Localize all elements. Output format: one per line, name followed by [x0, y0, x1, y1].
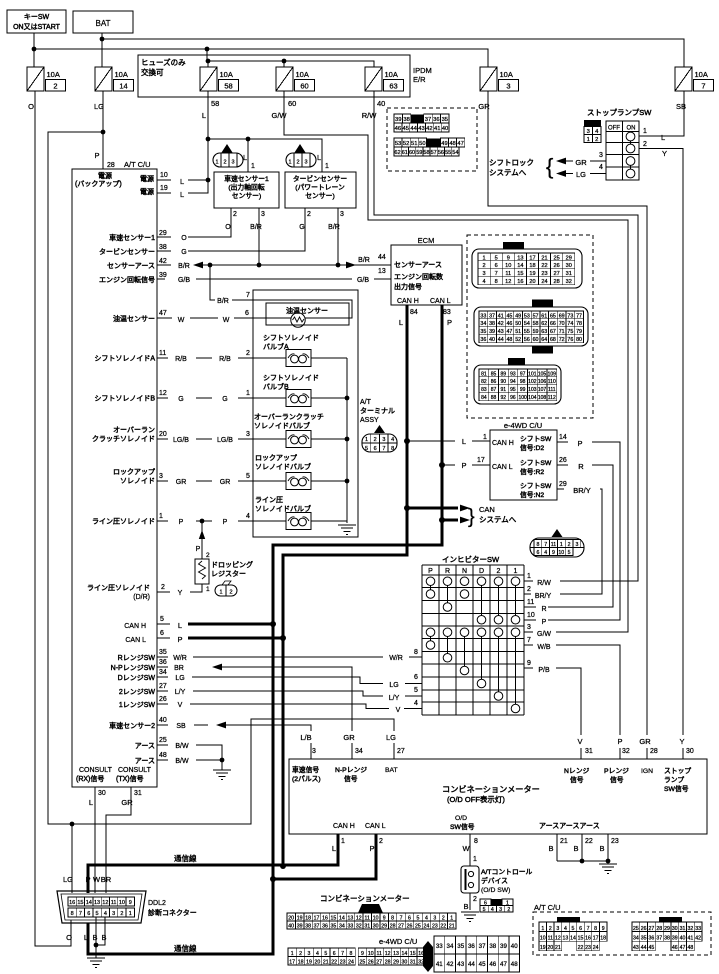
svg-text:2: 2 [229, 590, 232, 596]
svg-text:4: 4 [599, 164, 603, 171]
svg-text:53: 53 [524, 313, 530, 319]
svg-text:レジスター: レジスター [211, 569, 246, 578]
svg-text:10A: 10A [47, 70, 60, 79]
ground ATCU earth [213, 770, 231, 779]
svg-text:44: 44 [641, 945, 647, 951]
svg-text:出力信号: 出力信号 [394, 282, 422, 291]
svg-text:2: 2 [299, 951, 302, 957]
fuse F14 10A [95, 67, 134, 91]
svg-text:シフトソレノイド: シフトソレノイド [263, 334, 319, 342]
ECM box [391, 236, 462, 305]
svg-text:93: 93 [510, 371, 516, 377]
svg-text:G: G [299, 224, 304, 231]
svg-text:16: 16 [322, 916, 328, 922]
meter pin34 N-P range signal GR [335, 733, 367, 783]
svg-text:SB: SB [676, 102, 686, 111]
svg-text:48: 48 [511, 961, 518, 968]
svg-text:44: 44 [378, 254, 386, 261]
ATCU pin2 wire Y from dropping resistor [87, 584, 202, 601]
wire O fuse F2 to DDL2 pin8 [35, 91, 71, 946]
ATCU pin31 CONSULT TX wire GR to DDL2 pin12 [106, 787, 142, 893]
svg-text:3: 3 [159, 473, 163, 480]
svg-text:13: 13 [378, 268, 386, 275]
svg-text:4: 4 [104, 911, 107, 917]
svg-text:18: 18 [600, 936, 606, 942]
svg-text:W: W [93, 875, 101, 884]
wire GR fuse F3 to meter pin28 IGN [488, 91, 647, 759]
communication line label lower [174, 943, 197, 953]
svg-text:26: 26 [554, 263, 560, 269]
svg-text:40: 40 [442, 126, 448, 132]
svg-text:31: 31 [680, 926, 686, 932]
svg-text:D: D [479, 568, 484, 575]
svg-text:信号: 信号 [570, 775, 584, 784]
svg-text:30: 30 [566, 263, 572, 269]
svg-text:BR/Y: BR/Y [535, 593, 552, 600]
svg-text:(バックアップ): (バックアップ) [75, 180, 122, 188]
svg-text:B/R: B/R [328, 224, 340, 231]
svg-text:9: 9 [383, 916, 386, 922]
svg-text:L: L [84, 933, 88, 942]
fuse F63 10A [365, 67, 404, 91]
svg-text:L: L [661, 133, 665, 142]
svg-text:10A: 10A [500, 70, 513, 79]
meter pin27 BAT wire LG [385, 733, 405, 774]
svg-text:14: 14 [570, 936, 576, 942]
svg-text:油温センサー: 油温センサー [286, 306, 328, 315]
svg-text:R: R [445, 568, 450, 575]
svg-text:7: 7 [544, 542, 547, 548]
svg-text:38: 38 [305, 924, 311, 930]
svg-text:11: 11 [365, 916, 370, 922]
svg-text:34: 34 [339, 924, 345, 930]
inhibitor pin3 wire G/W [524, 624, 551, 638]
svg-text:24: 24 [541, 279, 547, 285]
svg-text:25: 25 [415, 924, 421, 930]
svg-text:58: 58 [224, 82, 232, 91]
svg-text:10A: 10A [296, 70, 309, 79]
svg-text:39: 39 [297, 924, 303, 930]
svg-text:BAT: BAT [385, 767, 398, 774]
svg-text:L/Y: L/Y [389, 695, 400, 702]
svg-text:e-4WD C/U: e-4WD C/U [379, 937, 417, 946]
svg-text:36: 36 [480, 337, 486, 343]
svg-text:9: 9 [527, 660, 531, 667]
svg-text:57: 57 [431, 150, 437, 156]
svg-text:1: 1 [325, 163, 329, 170]
svg-text:49: 49 [515, 313, 521, 319]
svg-text:23: 23 [611, 838, 619, 845]
speed sensor1 pin3 wire B/R [250, 208, 265, 265]
svg-text:A/T C/U: A/T C/U [124, 160, 151, 169]
svg-text:37: 37 [314, 924, 320, 930]
turbine sensor pin2 wire G [157, 208, 311, 251]
wire P to dropping resistor [196, 521, 210, 559]
svg-text:L: L [399, 318, 403, 327]
svg-text:26: 26 [641, 926, 647, 932]
svg-text:G/B: G/B [357, 277, 369, 284]
wire L fuse F58 to ATCU pins 10 19 [157, 91, 210, 193]
svg-text:2: 2 [161, 584, 165, 591]
svg-text:V: V [396, 707, 401, 714]
svg-text:R/W: R/W [362, 111, 378, 120]
ECM pin83 CAN L wire P [443, 309, 452, 327]
svg-text:(O/D OFF表示灯): (O/D OFF表示灯) [447, 794, 505, 804]
svg-text:3: 3 [231, 160, 234, 166]
connector icon speed sensor 1-2-3 [213, 144, 243, 167]
svg-text:O: O [181, 235, 187, 242]
svg-text:3: 3 [304, 160, 307, 166]
svg-text:システムへ: システムへ [489, 168, 527, 177]
svg-text:83: 83 [443, 309, 451, 316]
combination meter connector [287, 904, 456, 930]
inhibitor pin11 wire R [524, 599, 547, 613]
svg-text:ライン圧ソレノイド: ライン圧ソレノイド [87, 584, 150, 592]
svg-text:28: 28 [385, 960, 391, 966]
svg-text:56: 56 [524, 337, 530, 343]
svg-text:W: W [223, 317, 230, 324]
svg-text:3: 3 [556, 926, 559, 932]
svg-text:Y: Y [679, 737, 684, 746]
svg-text:2: 2 [296, 160, 299, 166]
svg-text:5: 5 [495, 255, 498, 261]
svg-text:8: 8 [495, 279, 498, 285]
svg-text:G: G [181, 249, 186, 256]
svg-text:111: 111 [548, 387, 556, 393]
lockup solenoid valve label [255, 454, 311, 471]
svg-text:5: 5 [572, 926, 575, 932]
svg-text:69: 69 [559, 313, 565, 319]
svg-text:2: 2 [482, 263, 485, 269]
svg-text:7: 7 [701, 82, 705, 91]
svg-text:47: 47 [506, 329, 512, 335]
svg-text:16: 16 [585, 936, 591, 942]
svg-text:33: 33 [347, 924, 353, 930]
ATCU pin29 O [109, 230, 187, 242]
svg-text:5: 5 [324, 951, 327, 957]
svg-text:e-4WD C/U: e-4WD C/U [504, 421, 542, 430]
AT terminal assy connector [362, 425, 397, 452]
svg-text:29: 29 [393, 960, 399, 966]
svg-text:36: 36 [649, 936, 655, 942]
svg-text:シフトソレノイドA: シフトソレノイドA [94, 355, 155, 363]
svg-text:3: 3 [599, 152, 603, 159]
svg-text:P: P [196, 546, 201, 553]
svg-text:3: 3 [261, 211, 265, 218]
svg-text:87: 87 [491, 387, 497, 393]
svg-text:A/T: A/T [360, 399, 372, 406]
wire L branch to sensors [208, 137, 322, 172]
svg-text:28: 28 [656, 926, 662, 932]
svg-text:8: 8 [474, 838, 478, 845]
svg-text:47: 47 [500, 961, 507, 968]
ATCU pin47 oil temp sensor wire W [113, 300, 352, 324]
svg-text:105: 105 [538, 371, 547, 377]
fuse F60 10A [276, 67, 315, 91]
ATCU internal labels power [75, 171, 154, 196]
svg-text:60: 60 [533, 337, 539, 343]
svg-text:2: 2 [527, 586, 531, 593]
svg-text:シフトソレノイドB: シフトソレノイドB [94, 395, 155, 403]
svg-text:33: 33 [695, 926, 701, 932]
svg-text:3: 3 [382, 437, 385, 443]
ATCU pin35 R range switch wire W/R [118, 649, 422, 662]
svg-text:(2パルス): (2パルス) [292, 775, 321, 783]
meter pin3 vehicle speed signal L/B [292, 733, 321, 783]
svg-text:信号: 信号 [344, 774, 358, 783]
svg-text:CAN: CAN [479, 505, 495, 514]
svg-text:4: 4 [316, 951, 319, 957]
svg-text:35: 35 [457, 943, 464, 950]
svg-text:43: 43 [633, 945, 639, 951]
svg-text:アース: アース [135, 742, 155, 750]
svg-text:27: 27 [397, 748, 405, 755]
svg-text:G/W: G/W [272, 111, 288, 120]
svg-text:ソレノイド: ソレノイド [120, 478, 155, 485]
svg-text:P/B: P/B [538, 667, 550, 674]
svg-text:BAT: BAT [96, 19, 111, 28]
svg-text:110: 110 [548, 379, 556, 385]
svg-text:V: V [577, 737, 582, 746]
svg-text:48: 48 [159, 752, 167, 759]
svg-text:R/B: R/B [175, 356, 187, 363]
fuse F7 10A [675, 67, 714, 91]
svg-text:W/R: W/R [389, 655, 403, 662]
svg-text:N: N [462, 568, 467, 575]
svg-text:112: 112 [548, 395, 556, 401]
svg-text:8: 8 [391, 446, 394, 452]
svg-text:ソレノイドバルブ: ソレノイドバルブ [254, 421, 310, 430]
svg-text:3: 3 [308, 951, 311, 957]
svg-text:95: 95 [510, 387, 516, 393]
svg-text:2: 2 [374, 437, 377, 443]
svg-text:エンジン回転信号: エンジン回転信号 [99, 275, 155, 284]
svg-text:11: 11 [505, 271, 511, 277]
svg-text:油温センサー: 油温センサー [113, 314, 155, 323]
svg-text:システムへ: システムへ [479, 515, 517, 524]
svg-text:アース: アース [135, 757, 155, 765]
svg-text:2: 2 [497, 568, 501, 575]
svg-text:29: 29 [664, 926, 670, 932]
svg-text:26: 26 [407, 924, 413, 930]
ATCU pin42 B/R [107, 258, 190, 270]
svg-text:Y: Y [178, 590, 183, 597]
svg-text:7: 7 [495, 271, 498, 277]
DDL2 diagnostic connector body [57, 891, 197, 923]
svg-text:N-PレンジSW: N-PレンジSW [111, 665, 156, 672]
wire IPDM fuse rail [206, 49, 374, 67]
wire B/R to ECM pin44 with arrow [340, 254, 391, 268]
svg-text:61: 61 [402, 150, 408, 156]
svg-text:30: 30 [402, 960, 408, 966]
ATCU power wire P pin28 [94, 151, 150, 169]
wire R/W fuse F63 to inhibitor row1 [374, 91, 638, 581]
svg-text:L: L [89, 798, 93, 807]
svg-text:6: 6 [536, 550, 539, 556]
svg-text:60: 60 [288, 99, 296, 108]
svg-text:(TX)信号: (TX)信号 [116, 774, 144, 783]
svg-text:18: 18 [298, 960, 304, 966]
wire G/B row39 to ECM pin13 [157, 268, 391, 284]
svg-text:14: 14 [402, 951, 408, 957]
svg-text:7: 7 [246, 292, 250, 299]
svg-text:58: 58 [211, 99, 219, 108]
svg-text:ソレノイドバルブ: ソレノイドバルブ [255, 462, 311, 471]
svg-text:B: B [599, 844, 604, 853]
svg-text:45: 45 [403, 126, 409, 132]
svg-text:20: 20 [547, 945, 553, 951]
svg-text:72: 72 [559, 337, 565, 343]
svg-text:2: 2 [507, 907, 510, 913]
svg-text:GR: GR [220, 479, 231, 486]
svg-text:(パワートレーン: (パワートレーン [295, 184, 345, 192]
combination meter box [289, 759, 707, 834]
svg-text:52: 52 [515, 337, 521, 343]
svg-text:SW信号: SW信号 [664, 784, 689, 793]
svg-text:58: 58 [533, 321, 539, 327]
svg-text:44: 44 [410, 126, 417, 132]
svg-text:OFF: OFF [608, 126, 620, 132]
oil temperature sensor thermistor [291, 313, 305, 327]
svg-text:19: 19 [529, 271, 535, 277]
inhibitor switch contacts circles [426, 577, 520, 713]
svg-text:45: 45 [649, 945, 655, 951]
svg-text:63: 63 [541, 329, 547, 335]
svg-text:4: 4 [246, 513, 250, 520]
ATCU pin48 ground wire B/W [135, 752, 225, 770]
AT control device OD switch [461, 856, 533, 911]
svg-text:O/D: O/D [455, 815, 467, 822]
svg-text:4: 4 [482, 279, 485, 285]
svg-text:4: 4 [491, 907, 494, 913]
svg-text:L: L [202, 111, 206, 120]
svg-text:12: 12 [102, 900, 108, 906]
svg-text:99: 99 [520, 387, 526, 393]
svg-text:74: 74 [567, 321, 573, 327]
svg-text:22: 22 [578, 945, 584, 951]
overrun clutch solenoid coil ATCU pin20 LG/B [92, 426, 347, 447]
svg-text:28: 28 [107, 162, 115, 169]
bus battery feed to fuse F7 [100, 37, 684, 67]
svg-text:20: 20 [288, 916, 294, 922]
inhibitor connector icon oval [530, 529, 584, 557]
svg-text:B/W: B/W [175, 743, 189, 750]
svg-text:シフトソレノイド: シフトソレノイド [263, 374, 319, 382]
IPDM connector grid 35-46 [394, 114, 449, 132]
svg-text:35: 35 [641, 936, 647, 942]
svg-text:ライン圧ソレノイド: ライン圧ソレノイド [92, 518, 155, 526]
svg-text:31: 31 [585, 748, 593, 755]
svg-text:11: 11 [548, 936, 553, 942]
svg-text:38: 38 [489, 943, 496, 950]
svg-text:55: 55 [524, 329, 530, 335]
svg-text:1: 1 [527, 573, 531, 580]
svg-text:70: 70 [559, 321, 565, 327]
svg-text:W/B: W/B [537, 644, 551, 651]
svg-text:GR: GR [121, 798, 133, 807]
svg-text:オーバーランクラッチ: オーバーランクラッチ [254, 413, 324, 421]
svg-text:46: 46 [395, 126, 401, 132]
ATCU pin40 vehicle speed sensor 2 wire SB to meter pin3 [109, 717, 311, 759]
svg-text:10: 10 [368, 951, 374, 957]
svg-text:G/B: G/B [178, 277, 190, 284]
svg-text:47: 47 [457, 141, 463, 147]
svg-text:24: 24 [593, 945, 599, 951]
svg-text:信号:D2: 信号:D2 [520, 443, 544, 452]
svg-text:42: 42 [447, 961, 454, 968]
label LG P W BR above DDL2 [63, 875, 112, 884]
svg-text:84: 84 [410, 309, 418, 316]
svg-text:5: 5 [483, 907, 486, 913]
svg-text:R/W: R/W [537, 580, 551, 587]
svg-text:信号:R2: 信号:R2 [520, 467, 544, 476]
svg-text:31: 31 [134, 790, 142, 797]
meter pin32 P range signal P [604, 737, 630, 784]
svg-text:45: 45 [506, 313, 512, 319]
ATCU pin30 CONSULT RX wire L to DDL2 pin13 [89, 787, 106, 893]
svg-text:21: 21 [560, 838, 568, 845]
svg-text:20: 20 [315, 960, 321, 966]
svg-text:バルブB: バルブB [263, 382, 289, 391]
svg-text:104: 104 [528, 395, 537, 401]
svg-text:R/B: R/B [219, 356, 231, 363]
svg-text:6: 6 [333, 951, 336, 957]
svg-text:GR: GR [639, 737, 651, 746]
ATCU pin38 G [99, 244, 187, 256]
svg-text:3: 3 [246, 431, 250, 438]
svg-text:エンジン回転数: エンジン回転数 [394, 272, 443, 281]
e-4WD connector diamond key [423, 941, 433, 972]
svg-text:98: 98 [520, 379, 526, 385]
svg-text:3: 3 [587, 129, 590, 135]
ECM connector grid 1-32 [472, 242, 582, 288]
svg-text:47: 47 [159, 310, 167, 317]
svg-text:10A: 10A [115, 70, 128, 79]
svg-text:34: 34 [480, 321, 486, 327]
svg-text:107: 107 [538, 387, 547, 393]
svg-text:13: 13 [347, 916, 353, 922]
svg-text:41: 41 [687, 936, 693, 942]
svg-text:37: 37 [479, 943, 486, 950]
svg-text:電源: 電源 [98, 171, 112, 180]
svg-text:13: 13 [94, 900, 100, 906]
svg-text:(RX)信号: (RX)信号 [76, 774, 104, 783]
inhibitor pin10 wire P [524, 612, 547, 626]
svg-text:通信線: 通信線 [174, 853, 197, 863]
svg-text:44: 44 [498, 337, 504, 343]
svg-text:P: P [428, 568, 433, 575]
meter pin2 CAN L wire P [365, 823, 386, 853]
svg-text:47: 47 [680, 945, 686, 951]
svg-text:3: 3 [499, 907, 502, 913]
svg-text:6: 6 [408, 916, 411, 922]
e-4WD pin17 CAN L wire P [442, 457, 490, 470]
fuse F58 10A [200, 67, 239, 91]
svg-text:34: 34 [633, 936, 639, 942]
svg-text:50: 50 [419, 141, 425, 147]
svg-text:P: P [179, 519, 184, 526]
svg-text:ソレノイドバルブ: ソレノイドバルブ [255, 504, 311, 513]
label L 1 at speed sensor feed [243, 153, 255, 170]
IPDM connector grid 47-62 [394, 138, 465, 156]
svg-text:43: 43 [498, 329, 504, 335]
svg-text:L/Y: L/Y [175, 689, 186, 696]
svg-text:1: 1 [246, 390, 250, 397]
connector icon turbine sensor 1-2-3 [286, 144, 316, 167]
svg-text:33: 33 [436, 943, 443, 950]
svg-text:N-Pレンジ: N-Pレンジ [335, 767, 367, 774]
CAN junction dots on trunks [270, 438, 445, 882]
